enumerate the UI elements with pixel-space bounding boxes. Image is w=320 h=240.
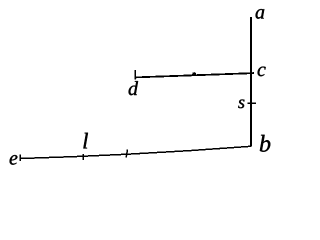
line ab (vertical): [250, 17, 252, 147]
tick at d: [134, 70, 136, 80]
label d: [129, 81, 138, 95]
second tick on eb: [126, 150, 127, 158]
line eb (slanted): [20, 146, 251, 158]
segment dc (horizontal): [135, 73, 254, 77]
label s: [238, 100, 244, 109]
label e: [10, 155, 18, 165]
midpoint dot on dc: [192, 72, 196, 76]
label a: [256, 9, 265, 19]
label l: [83, 133, 88, 149]
tick at e end: [19, 155, 21, 162]
label c: [258, 67, 266, 77]
tick l on eb: [82, 154, 84, 160]
tick s on ab: [248, 102, 257, 104]
label b: [260, 135, 270, 152]
